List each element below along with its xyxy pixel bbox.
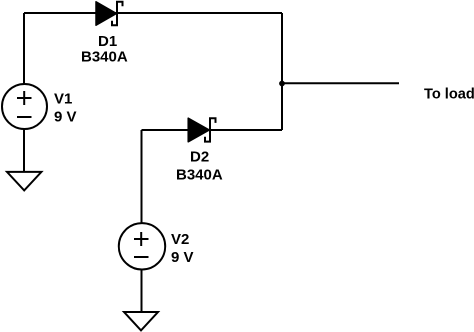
svg-text:To load: To load <box>424 86 474 102</box>
svg-text:V2: V2 <box>171 231 189 248</box>
ground (below V1) <box>7 172 41 191</box>
wire bottom rail (D2 branch) <box>142 129 283 131</box>
voltage source V1 <box>2 84 47 129</box>
diode D2 (Schottky) <box>188 118 215 142</box>
diode D1 (Schottky) <box>96 2 123 26</box>
svg-text:B340A: B340A <box>176 167 223 184</box>
svg-text:V1: V1 <box>54 91 72 108</box>
wire right vertical (D1 cathode down to D2 cathode) <box>281 13 283 130</box>
wire V1 bottom lead to ground <box>23 129 25 172</box>
svg-text:D1: D1 <box>98 33 117 50</box>
wire V2 top lead <box>141 130 143 223</box>
node output junction <box>279 81 285 87</box>
wire output to load <box>282 82 399 84</box>
svg-text:9 V: 9 V <box>171 249 194 266</box>
wire top rail (V1 to D1 to node) <box>24 12 282 14</box>
svg-text:9 V: 9 V <box>54 109 77 126</box>
voltage source V2 <box>119 223 165 269</box>
ground (below V2) <box>124 312 158 330</box>
wire V1 top lead <box>23 13 25 84</box>
svg-text:D2: D2 <box>190 149 209 166</box>
svg-text:B340A: B340A <box>81 49 128 66</box>
wire V2 bottom lead to ground <box>141 270 143 312</box>
